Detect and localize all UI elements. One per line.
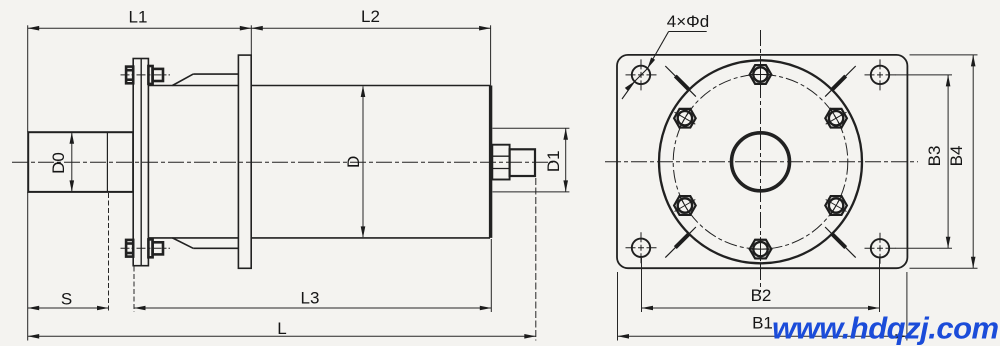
D1 dim line [565,128,567,192]
extension L3 left [133,267,135,313]
ext B3 bottom [895,247,952,249]
D0 dim line [71,133,73,191]
tick upper-right [825,66,856,97]
L arrows [28,334,40,339]
clamp bolt top: hex head [126,66,163,84]
hex bolt upper right [820,102,853,135]
dim line B3 [947,75,949,248]
B1 arrows [618,334,630,339]
corner hole top-left [626,59,657,90]
dim line L [28,335,536,337]
D arrows [361,86,366,98]
rod collar line S [106,132,108,192]
ext B1 left [617,272,619,341]
L1 arrows [28,26,40,31]
rod end stub [510,149,535,176]
labels left view [49,7,563,338]
rib top edge [193,73,239,75]
center hole [732,133,790,191]
D1 ext top [493,127,570,129]
extension line rear plate top [250,25,252,55]
svg-text:D0: D0 [49,152,68,174]
rib bottom edge [193,247,239,249]
extension L right [535,178,537,341]
clamp bolt bottom: nut [153,242,163,254]
ext B3 top [895,74,952,76]
extension line left [27,25,29,132]
D1 arrows [563,128,568,140]
ext B2 right [879,259,881,313]
ext B4 bottom [910,267,978,269]
B3 arrows [946,75,951,87]
svg-text:B3: B3 [925,146,944,167]
hex bolt bottom [749,237,773,261]
extension line body right top [490,25,492,85]
tick lower-right [825,227,856,258]
clamp bolt top: washer [148,66,152,84]
svg-text:L3: L3 [301,289,320,308]
rear plate [238,55,251,268]
bolt top centerline [121,74,171,76]
threaded hex section [492,145,509,180]
svg-text:4×Φd: 4×Φd [667,12,709,31]
leader 4xPhi-d [622,32,707,100]
rib top diagonal [172,74,193,85]
L2 arrows [251,26,262,31]
cylinder body bottom outline [148,237,490,239]
B4 arrows [971,55,976,67]
svg-text:B1: B1 [752,314,773,333]
clamp bolt bottom: washer [148,239,152,257]
L3 arrows [134,306,146,311]
main centerline [12,161,553,163]
dim line L1 L2 [28,27,491,29]
mounting plate outline [617,55,907,268]
D0 arrows [70,132,75,144]
dim line B2 [642,307,880,309]
corner holes [626,59,896,263]
ext B1 right [906,272,908,341]
svg-text:S: S [61,290,72,309]
corner hole top-right [865,59,896,90]
extension S right (dashed) [108,193,110,312]
cylinder body right face (thick) [489,86,492,238]
arrows left view [28,26,568,339]
rib bottom diagonal [172,238,193,248]
svg-text:B4: B4 [947,146,966,167]
S arrows [28,306,40,311]
clamp bolt top: nut [153,69,163,81]
body circle [659,60,862,263]
dim line B4 [972,55,974,268]
clamp bolt bottom: hex head [126,239,163,257]
hex bolt lower left [669,189,702,222]
dim line L3 [134,307,491,309]
bolt circle [673,75,848,250]
dim line B1 [618,335,907,337]
hex bolts [669,63,853,262]
svg-text:L: L [277,319,286,338]
svg-text:B2: B2 [751,286,772,305]
hex bolt upper left [669,102,702,135]
corner hole bottom-right [865,233,896,264]
tick upper-left [665,66,696,97]
tick lower-left [665,227,696,258]
svg-text:D: D [344,156,363,168]
diagonal tick marks on body circle [665,66,855,258]
ext B2 left [641,258,643,312]
vertical centerline [760,30,762,292]
dim line S [28,307,109,309]
svg-text:www.hdqzj.com: www.hdqzj.com [772,311,999,346]
ext B4 top [910,54,978,56]
hex bolt lower right [820,189,853,222]
piston rod D0 [28,132,133,192]
bolt bottom centerline [121,247,171,249]
front plate pair [133,59,148,266]
B2 arrows [642,306,654,311]
svg-text:D1: D1 [544,150,563,172]
horizontal centerline [605,161,918,163]
svg-text:L2: L2 [361,7,380,26]
D dim line [362,87,364,238]
hex bolt top [749,63,773,87]
cylinder body top outline [148,85,490,87]
extension L3 right [490,239,492,312]
svg-text:L1: L1 [129,8,148,27]
D1 ext bottom [493,191,570,193]
corner hole bottom-left [626,232,657,263]
